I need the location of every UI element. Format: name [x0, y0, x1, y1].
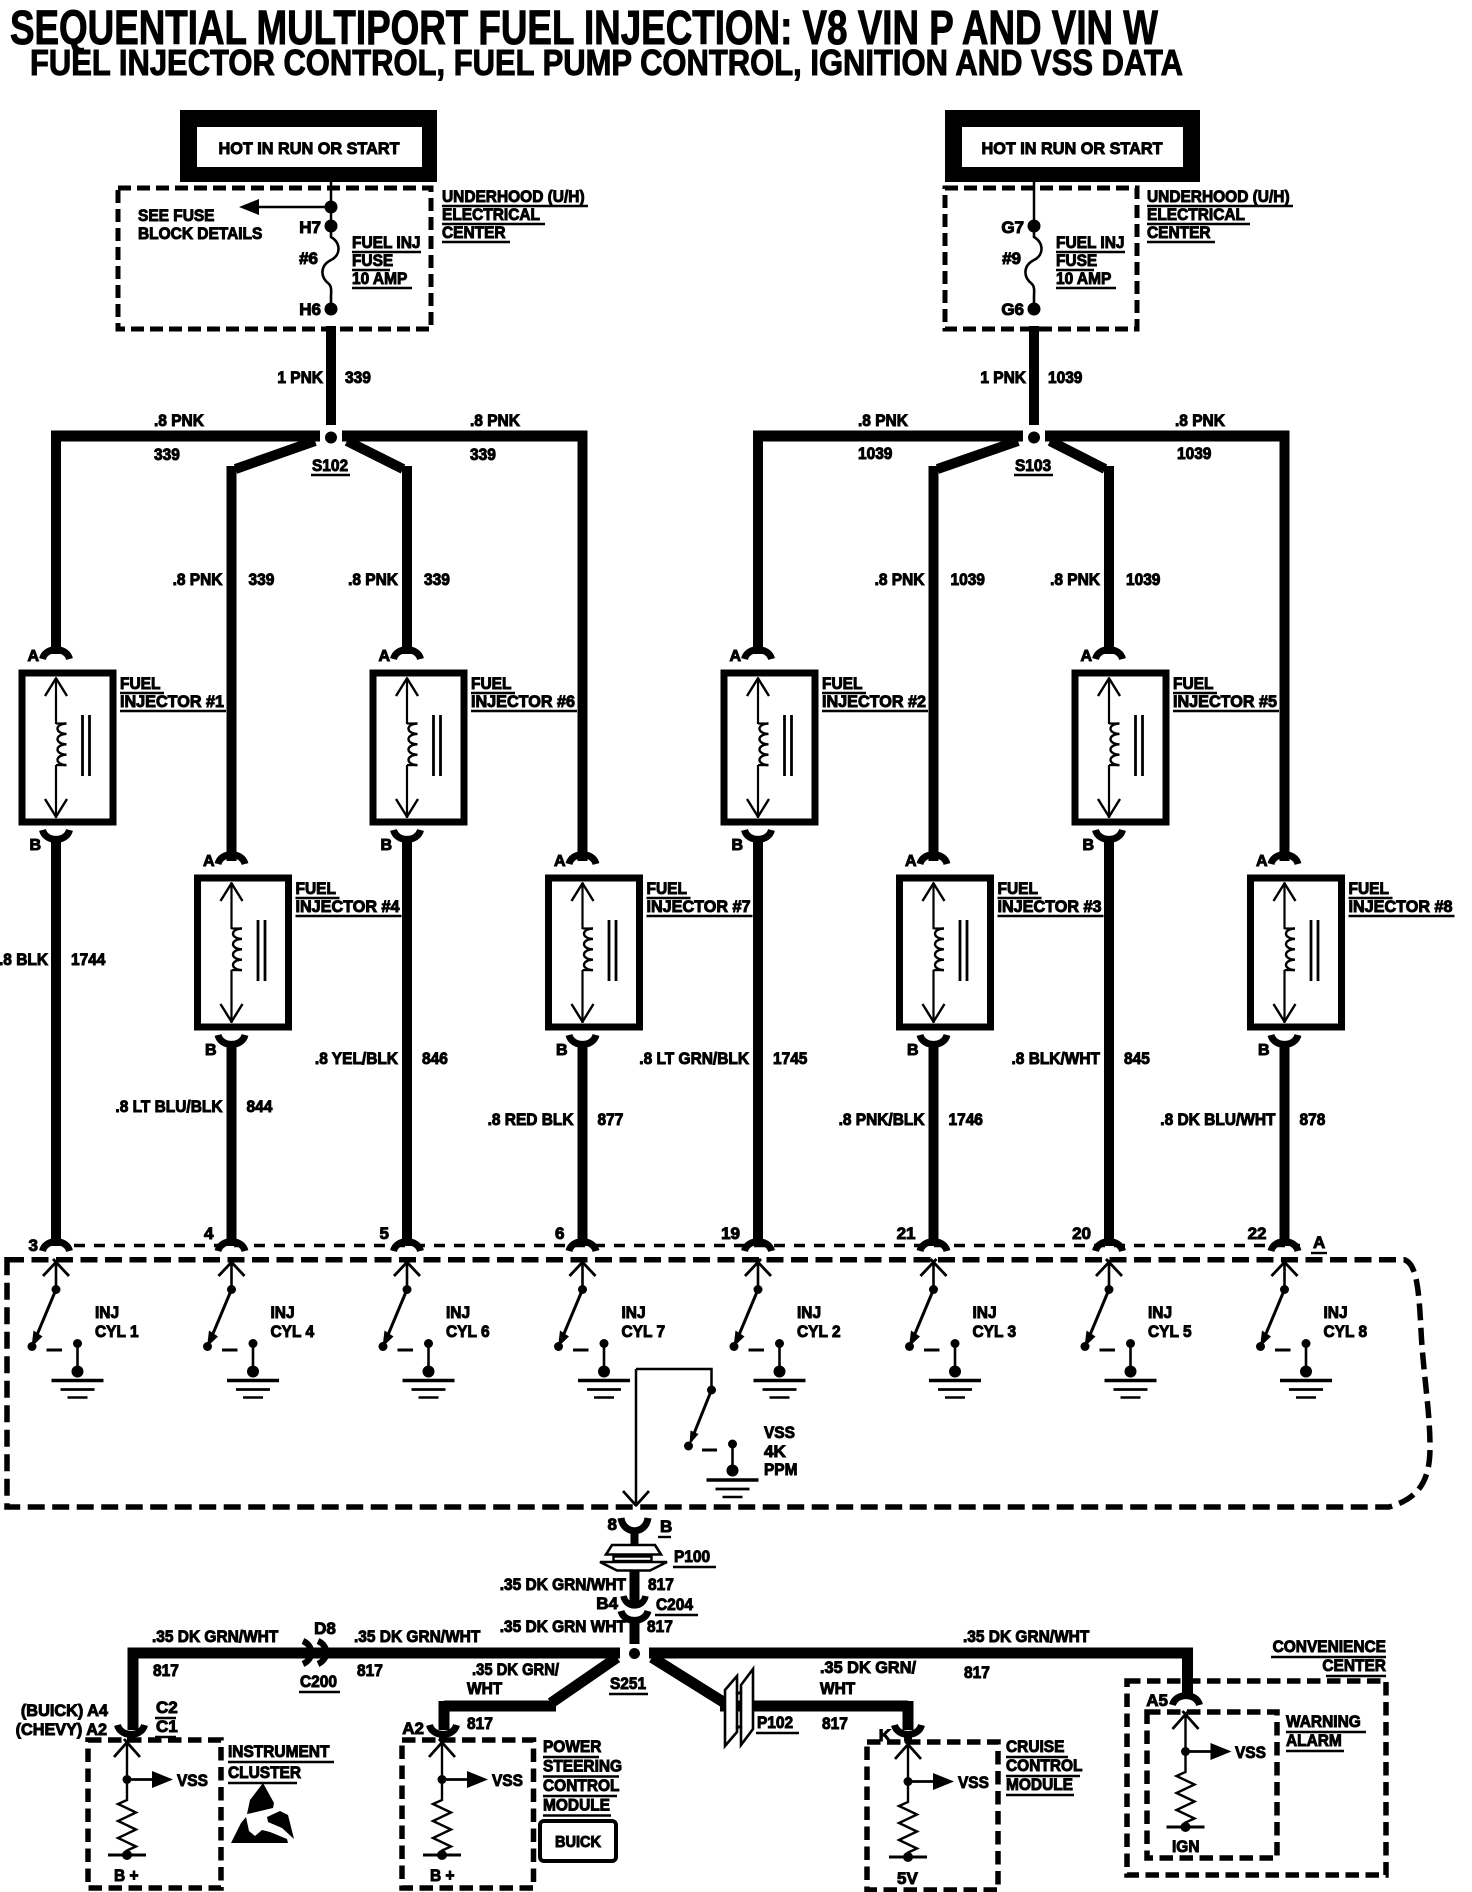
svg-text:INJ: INJ	[1148, 1303, 1172, 1322]
svg-text:C1: C1	[156, 1717, 178, 1736]
label .8 PNK 1039 (branch to #5)	[1050, 570, 1160, 589]
fuel injector #4	[198, 853, 402, 1059]
svg-text:5V: 5V	[897, 1869, 918, 1888]
convenience center box (dashed)	[1127, 1681, 1386, 1875]
svg-text:CENTER: CENTER	[1322, 1656, 1386, 1675]
PCM pin 22	[1248, 1224, 1298, 1251]
svg-text:.35 DK GRN/WHT: .35 DK GRN/WHT	[152, 1627, 279, 1646]
svg-text:FUEL: FUEL	[296, 879, 336, 898]
svg-text:A2: A2	[402, 1719, 424, 1738]
svg-text:BLOCK DETAILS: BLOCK DETAILS	[138, 224, 262, 243]
warning alarm internal circuit	[1167, 1711, 1266, 1856]
svg-text:CONVENIENCE: CONVENIENCE	[1273, 1637, 1386, 1656]
bus wire left from S251	[138, 1648, 620, 1659]
svg-text:ELECTRICAL: ELECTRICAL	[442, 205, 540, 224]
svg-text:817: 817	[647, 1617, 673, 1636]
svg-text:817: 817	[153, 1661, 179, 1680]
svg-text:20: 20	[1072, 1224, 1091, 1243]
power source box "HOT IN RUN OR START" (L)	[180, 110, 437, 182]
svg-text:.8 DK BLU/WHT: .8 DK BLU/WHT	[1160, 1110, 1276, 1129]
svg-text:(CHEVY) A2: (CHEVY) A2	[16, 1720, 107, 1739]
bus wire right from S251	[649, 1648, 1193, 1659]
fuel injector #7	[549, 853, 753, 1059]
wire 1 PNK 339	[326, 326, 336, 425]
label P102, wire 817	[756, 1713, 848, 1733]
wire from HOT box to fuse G7 (right)	[1033, 182, 1036, 222]
svg-text:INJECTOR #2: INJECTOR #2	[822, 692, 926, 711]
svg-text:S103: S103	[1015, 456, 1051, 475]
svg-text:CLUSTER: CLUSTER	[228, 1763, 301, 1782]
svg-text:8: 8	[608, 1515, 617, 1534]
svg-text:VSS: VSS	[764, 1423, 795, 1442]
instrument cluster box (dashed)	[88, 1740, 221, 1888]
PCM pin 21	[897, 1224, 947, 1251]
svg-text:.8 PNK: .8 PNK	[858, 411, 909, 430]
terminal A2 (PS module), wire 817	[402, 1714, 493, 1741]
svg-text:878: 878	[1300, 1110, 1326, 1129]
svg-text:FUSE: FUSE	[352, 251, 393, 270]
label CRUISE CONTROL MODULE	[1006, 1737, 1083, 1795]
svg-text:CYL 5: CYL 5	[1148, 1322, 1192, 1341]
label FUEL INJ FUSE 10 AMP (left)	[352, 233, 421, 288]
svg-text:STEERING: STEERING	[543, 1757, 622, 1776]
connector C204 pin B4	[596, 1594, 698, 1620]
svg-text:MODULE: MODULE	[1006, 1775, 1073, 1794]
splice S102 bus bar	[51, 431, 320, 442]
wire to convenience center, label .35 DK GRN/WHT 817	[963, 1627, 1188, 1699]
label .8 PNK 339 (branch to #4)	[173, 570, 275, 589]
svg-text:CYL 4: CYL 4	[271, 1322, 315, 1341]
fuel injector #1	[22, 648, 226, 854]
label INSTRUMENT CLUSTER	[228, 1742, 334, 1783]
label WARNING ALARM	[1286, 1712, 1366, 1751]
svg-text:339: 339	[249, 570, 275, 589]
svg-text:B: B	[660, 1517, 672, 1536]
svg-text:CENTER: CENTER	[442, 223, 506, 242]
wire branch S103 to injector #5	[1050, 441, 1105, 469]
svg-text:4: 4	[204, 1224, 214, 1243]
svg-text:INJECTOR #4: INJECTOR #4	[296, 897, 401, 916]
splice S103 bus bar	[753, 431, 1023, 442]
node: fuse block feed junction (left)	[325, 201, 338, 214]
svg-text:22: 22	[1248, 1224, 1267, 1243]
wire .8 PNK 1039 (right of S103)	[1175, 411, 1226, 463]
wire P102 to cruise module	[720, 1701, 908, 1730]
fuel injector #5	[1075, 648, 1279, 854]
switch INJ CYL 3 with ground	[905, 1259, 1016, 1398]
wire from HOT box to fuse H7 (left)	[330, 182, 333, 222]
svg-text:G7: G7	[1001, 218, 1024, 237]
wire .8 BLK 1744	[51, 838, 61, 1246]
svg-text:S251: S251	[610, 1674, 646, 1693]
svg-text:B: B	[1258, 1042, 1270, 1059]
switch INJ CYL 8 with ground	[1256, 1259, 1367, 1398]
svg-text:INJECTOR #6: INJECTOR #6	[471, 692, 575, 711]
svg-text:.35 DK GRN/WHT: .35 DK GRN/WHT	[354, 1627, 481, 1646]
terminal A5	[1146, 1691, 1199, 1710]
svg-text:339: 339	[345, 368, 371, 387]
terminal H7	[299, 218, 337, 237]
cruise module internal circuit	[889, 1741, 989, 1888]
svg-text:4K: 4K	[764, 1442, 786, 1461]
svg-text:INJECTOR #3: INJECTOR #3	[998, 897, 1102, 916]
switch INJ CYL 6 with ground	[379, 1259, 490, 1398]
wire .8 PNK 339 (right of S102)	[470, 411, 521, 464]
svg-text:B +: B +	[430, 1866, 455, 1885]
svg-text:.35 DK GRN/WHT: .35 DK GRN/WHT	[963, 1627, 1090, 1646]
PS module internal circuit	[423, 1739, 523, 1885]
svg-text:FUEL INJ: FUEL INJ	[1056, 233, 1125, 252]
wire S251 to power steering module	[444, 1658, 617, 1731]
PCM pin 20	[1072, 1224, 1122, 1251]
label FUEL INJ FUSE 10 AMP (right)	[1056, 233, 1125, 288]
svg-text:CONTROL: CONTROL	[543, 1776, 620, 1795]
terminal H6	[299, 300, 337, 319]
svg-text:1039: 1039	[1126, 570, 1160, 589]
power steering control module box (dashed)	[402, 1740, 534, 1888]
svg-text:WHT: WHT	[820, 1679, 856, 1698]
svg-text:INJ: INJ	[973, 1303, 997, 1322]
svg-text:P102: P102	[757, 1713, 793, 1732]
PCM module box (dashed)	[7, 1260, 1430, 1507]
svg-text:INJ: INJ	[95, 1303, 119, 1322]
svg-text:INJ: INJ	[271, 1303, 295, 1322]
connector C200 pin D8	[299, 1619, 340, 1692]
switch INJ CYL 5 with ground	[1081, 1259, 1192, 1398]
svg-text:.8 YEL/BLK: .8 YEL/BLK	[315, 1049, 399, 1068]
terminal G6	[1001, 300, 1040, 319]
wire S251 to P102	[652, 1658, 728, 1706]
svg-text:.8 PNK: .8 PNK	[173, 570, 224, 589]
svg-text:CYL 3: CYL 3	[973, 1322, 1017, 1341]
label .35 DK GRN/WHT 817 (left segment)	[152, 1627, 279, 1680]
svg-text:846: 846	[422, 1049, 448, 1068]
svg-text:1039: 1039	[858, 444, 892, 463]
svg-text:A: A	[1256, 853, 1268, 870]
svg-text:CONTROL: CONTROL	[1006, 1756, 1083, 1775]
terminal K (cruise module)	[879, 1725, 922, 1745]
svg-text:D8: D8	[314, 1619, 336, 1638]
connector P100	[600, 1545, 667, 1571]
power source box "HOT IN RUN OR START" (R)	[945, 110, 1200, 182]
svg-text:B: B	[380, 837, 392, 854]
wire .8 LT GRN/BLK 1745	[753, 838, 763, 1246]
label UNDERHOOD (U/H) ELECTRICAL CENTER (right)	[1147, 187, 1293, 242]
wire .8 BLK/WHT 845	[1104, 838, 1114, 1246]
svg-text:A: A	[1080, 648, 1092, 665]
label POWER STEERING CONTROL MODULE	[543, 1737, 622, 1816]
terminal (BUICK) A4 (CHEVY) A2	[16, 1701, 145, 1741]
svg-text:#6: #6	[299, 249, 318, 268]
svg-text:H7: H7	[299, 218, 321, 237]
fuse FUEL INJ #6 (left)	[322, 232, 338, 303]
svg-text:#9: #9	[1002, 249, 1021, 268]
switch INJ CYL 7 with ground	[554, 1259, 665, 1398]
svg-text:INJ: INJ	[622, 1303, 646, 1322]
connector P102	[725, 1669, 753, 1746]
PCM pin 6	[555, 1224, 596, 1251]
label .8 PNK 1039 (branch to #3)	[875, 570, 985, 589]
svg-text:.8 PNK: .8 PNK	[470, 411, 521, 430]
svg-text:FUEL: FUEL	[1349, 879, 1389, 898]
svg-text:VSS: VSS	[1235, 1743, 1266, 1762]
terminal G7	[1001, 218, 1040, 237]
underhood electrical center box (left, dashed)	[118, 188, 431, 329]
svg-text:845: 845	[1124, 1049, 1150, 1068]
svg-text:.8 PNK: .8 PNK	[1175, 411, 1226, 430]
svg-text:A5: A5	[1146, 1691, 1168, 1710]
wire .8 PNK/BLK 1746	[929, 1043, 939, 1246]
svg-text:5: 5	[380, 1224, 389, 1243]
wire drop to injector #7	[578, 431, 588, 862]
svg-text:A: A	[1313, 1233, 1325, 1252]
svg-text:INJ: INJ	[797, 1303, 821, 1322]
PCM pin 3	[29, 1236, 70, 1255]
svg-text:FUEL INJ: FUEL INJ	[352, 233, 421, 252]
label P100	[673, 1547, 716, 1567]
svg-text:FUEL: FUEL	[120, 674, 160, 693]
svg-text:B: B	[1082, 837, 1094, 854]
svg-text:.8 PNK: .8 PNK	[154, 411, 205, 430]
label SEE FUSE BLOCK DETAILS	[138, 206, 262, 243]
label CONVENIENCE CENTER	[1271, 1637, 1386, 1676]
label S102	[311, 456, 350, 475]
svg-text:339: 339	[470, 445, 496, 464]
arrow to SEE FUSE BLOCK DETAILS	[239, 199, 331, 215]
PCM connector face line (thin dashed)	[74, 1244, 1300, 1248]
fuel injector #2	[724, 648, 928, 854]
svg-text:B: B	[907, 1042, 919, 1059]
svg-text:CYL 6: CYL 6	[446, 1322, 490, 1341]
label .35 DK GRN/ WHT (PS branch)	[467, 1660, 559, 1698]
wire .8 LT BLU/BLK 844	[227, 1043, 237, 1246]
underhood electrical center box (right, dashed)	[945, 188, 1137, 329]
splice S102	[325, 432, 337, 444]
svg-text:B +: B +	[114, 1866, 139, 1885]
svg-text:817: 817	[822, 1714, 848, 1733]
wire drop to injector #2	[753, 431, 763, 655]
PCM pin 4	[204, 1224, 245, 1251]
svg-text:INJECTOR #7: INJECTOR #7	[647, 897, 751, 916]
PCM pin A	[1311, 1233, 1327, 1253]
svg-text:INJECTOR #8: INJECTOR #8	[1349, 897, 1453, 916]
svg-text:A: A	[203, 853, 215, 870]
svg-text:SEE FUSE: SEE FUSE	[138, 206, 215, 225]
svg-text:10 AMP: 10 AMP	[1056, 269, 1111, 288]
svg-text:817: 817	[357, 1661, 383, 1680]
ESD sensitive symbol	[231, 1783, 294, 1843]
fuse FUEL INJ #9 (right)	[1025, 232, 1041, 303]
svg-text:844: 844	[247, 1097, 273, 1116]
label .35 DK GRN/WHT 817 (right of C200)	[354, 1627, 481, 1680]
wire .8 PNK 1039 (left of S103)	[858, 411, 909, 463]
PCM pin 19	[721, 1224, 771, 1251]
svg-text:C200: C200	[300, 1672, 337, 1691]
svg-text:1039: 1039	[1177, 444, 1211, 463]
svg-text:FUEL: FUEL	[822, 674, 862, 693]
warning alarm box (dashed)	[1147, 1712, 1277, 1858]
svg-text:CYL 2: CYL 2	[797, 1322, 841, 1341]
svg-text:HOT IN RUN OR START: HOT IN RUN OR START	[982, 139, 1164, 158]
svg-text:1746: 1746	[949, 1110, 983, 1129]
fuel injector #3	[900, 853, 1104, 1059]
svg-text:6: 6	[555, 1224, 564, 1243]
svg-text:C2: C2	[156, 1698, 178, 1717]
svg-text:A: A	[378, 648, 390, 665]
svg-text:21: 21	[897, 1224, 916, 1243]
svg-text:A: A	[554, 853, 566, 870]
svg-text:.8 BLK/WHT: .8 BLK/WHT	[1012, 1049, 1101, 1068]
wire branch S102 to injector #4	[236, 441, 316, 469]
svg-text:1 PNK: 1 PNK	[277, 368, 323, 387]
switch INJ CYL 4 with ground	[203, 1259, 315, 1398]
svg-text:UNDERHOOD (U/H): UNDERHOOD (U/H)	[1147, 187, 1290, 206]
svg-text:WARNING: WARNING	[1286, 1712, 1361, 1731]
svg-text:G6: G6	[1001, 300, 1024, 319]
BUICK tag	[540, 1821, 616, 1861]
svg-text:S102: S102	[312, 456, 348, 475]
VSS output line to pin 8	[623, 1369, 649, 1506]
svg-text:BUICK: BUICK	[555, 1834, 601, 1851]
label .8 PNK 339 (branch to #6)	[348, 570, 450, 589]
svg-text:INSTRUMENT: INSTRUMENT	[228, 1742, 330, 1761]
svg-text:A: A	[27, 648, 39, 665]
svg-text:FUSE: FUSE	[1056, 251, 1097, 270]
svg-text:CENTER: CENTER	[1147, 223, 1211, 242]
svg-text:1039: 1039	[1048, 368, 1082, 387]
svg-text:UNDERHOOD (U/H): UNDERHOOD (U/H)	[442, 187, 585, 206]
svg-text:817: 817	[964, 1663, 990, 1682]
label .35 DK GRN/ WHT (cruise branch)	[820, 1658, 916, 1698]
svg-text:FUEL: FUEL	[647, 879, 687, 898]
wire .8 DK BLU/WHT 878	[1280, 1043, 1290, 1246]
svg-text:.8 PNK: .8 PNK	[348, 570, 399, 589]
svg-text:B4: B4	[596, 1594, 618, 1613]
svg-text:1745: 1745	[773, 1049, 807, 1068]
svg-text:.35 DK GRN/WHT: .35 DK GRN/WHT	[500, 1575, 627, 1594]
svg-text:VSS: VSS	[177, 1771, 208, 1790]
svg-text:B: B	[29, 837, 41, 854]
svg-text:1039: 1039	[951, 570, 985, 589]
svg-text:FUEL: FUEL	[471, 674, 511, 693]
wire branch S103 to injector #3	[938, 441, 1019, 469]
svg-text:339: 339	[424, 570, 450, 589]
splice S103	[1028, 432, 1040, 444]
svg-text:POWER: POWER	[543, 1737, 601, 1756]
VSS 4K PPM switch with ground	[636, 1369, 759, 1497]
svg-text:CYL 7: CYL 7	[622, 1322, 666, 1341]
wire branch S102 to injector #6	[347, 441, 403, 469]
switch INJ CYL 1 with ground	[28, 1259, 139, 1398]
svg-text:3: 3	[29, 1236, 38, 1255]
wire bend down to instrument cluster	[128, 1648, 139, 1731]
svg-text:WHT: WHT	[467, 1679, 503, 1698]
svg-text:B: B	[731, 837, 743, 854]
wire 1 PNK 1039	[1029, 326, 1039, 425]
svg-text:339: 339	[154, 445, 180, 464]
svg-text:1744: 1744	[71, 950, 106, 969]
svg-text:MODULE: MODULE	[543, 1796, 610, 1815]
label VSS 4K PPM	[764, 1423, 798, 1479]
svg-text:H6: H6	[299, 300, 321, 319]
wire .8 RED BLK 877	[578, 1043, 588, 1246]
connector C2 / C1	[155, 1698, 178, 1737]
svg-text:877: 877	[598, 1110, 624, 1129]
instrument cluster internal circuit	[108, 1739, 208, 1885]
svg-text:INJ: INJ	[1324, 1303, 1348, 1322]
svg-text:817: 817	[648, 1575, 674, 1594]
wire .35 DK GRN/WHT 817 (P100 to C204)	[630, 1571, 640, 1606]
svg-text:.8 PNK: .8 PNK	[875, 570, 926, 589]
svg-text:ELECTRICAL: ELECTRICAL	[1147, 205, 1245, 224]
switch INJ CYL 2 with ground	[730, 1259, 841, 1398]
wire .35 DK GRN WHT 817 (C204 to S251)	[630, 1621, 640, 1644]
splice S251	[629, 1648, 640, 1659]
fuel injector #8	[1251, 853, 1455, 1059]
svg-text:(BUICK) A4: (BUICK) A4	[21, 1701, 109, 1720]
svg-text:B: B	[556, 1042, 568, 1059]
label UNDERHOOD (U/H) ELECTRICAL CENTER (left)	[442, 187, 588, 242]
svg-text:INJ: INJ	[446, 1303, 470, 1322]
svg-text:VSS: VSS	[958, 1773, 989, 1792]
svg-text:19: 19	[721, 1224, 740, 1243]
svg-text:.8 LT GRN/BLK: .8 LT GRN/BLK	[639, 1049, 749, 1068]
svg-text:INJECTOR #5: INJECTOR #5	[1173, 692, 1277, 711]
svg-text:.8 RED BLK: .8 RED BLK	[488, 1110, 575, 1129]
svg-text:.8 PNK: .8 PNK	[1050, 570, 1101, 589]
svg-text:IGN: IGN	[1172, 1837, 1200, 1856]
svg-text:HOT IN RUN OR START: HOT IN RUN OR START	[219, 139, 401, 158]
svg-text:.35 DK GRN/: .35 DK GRN/	[820, 1658, 916, 1677]
svg-text:10 AMP: 10 AMP	[352, 269, 407, 288]
svg-text:FUEL INJECTOR CONTROL, FUEL PU: FUEL INJECTOR CONTROL, FUEL PUMP CONTROL…	[30, 42, 1183, 83]
svg-text:INJECTOR #1: INJECTOR #1	[120, 692, 224, 711]
label S103	[1014, 456, 1053, 475]
svg-text:CRUISE: CRUISE	[1006, 1737, 1064, 1756]
svg-text:ALARM: ALARM	[1286, 1731, 1342, 1750]
svg-text:A: A	[729, 648, 741, 665]
svg-text:.8 PNK/BLK: .8 PNK/BLK	[839, 1110, 926, 1129]
svg-text:CYL 1: CYL 1	[95, 1322, 139, 1341]
svg-text:.35 DK GRN/: .35 DK GRN/	[472, 1660, 559, 1679]
fuel injector #6	[373, 648, 577, 854]
svg-text:817: 817	[467, 1714, 493, 1733]
svg-text:FUEL: FUEL	[998, 879, 1038, 898]
label S251	[609, 1674, 648, 1694]
svg-text:A: A	[905, 853, 917, 870]
svg-text:FUEL: FUEL	[1173, 674, 1213, 693]
svg-text:C204: C204	[656, 1595, 693, 1614]
svg-text:1 PNK: 1 PNK	[980, 368, 1026, 387]
svg-text:P100: P100	[674, 1547, 710, 1566]
svg-text:.35 DK GRN WHT: .35 DK GRN WHT	[500, 1617, 627, 1636]
svg-text:VSS: VSS	[492, 1771, 523, 1790]
svg-text:CYL 8: CYL 8	[1324, 1322, 1368, 1341]
wire .8 PNK 339 (left of S102)	[154, 411, 205, 464]
wire drop to injector #8	[1280, 431, 1290, 862]
PCM pin 8 / connector B	[608, 1515, 673, 1547]
svg-text:B: B	[205, 1042, 217, 1059]
svg-text:.8 BLK: .8 BLK	[0, 950, 49, 969]
svg-text:.8 LT BLU/BLK: .8 LT BLU/BLK	[115, 1097, 223, 1116]
svg-text:PPM: PPM	[764, 1460, 798, 1479]
wire drop to injector #1	[51, 431, 61, 655]
cruise control module box (dashed)	[867, 1742, 998, 1890]
PCM pin 5	[380, 1224, 421, 1251]
wire .8 YEL/BLK 846	[402, 838, 412, 1246]
